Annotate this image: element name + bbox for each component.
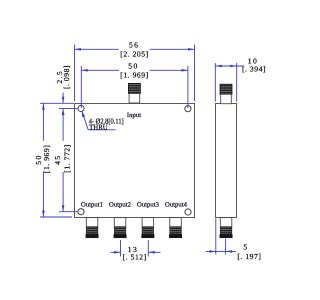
svg-text:[1. 772]: [1. 772]	[62, 144, 71, 172]
dimension 2.5 [.098] vertical	[40, 93, 78, 116]
hole bottom-left	[78, 209, 84, 215]
dimension 50 [1.969] horizontal	[81, 66, 188, 108]
output connector 1	[86, 218, 99, 238]
svg-text:Output2: Output2	[109, 202, 131, 209]
svg-text:45: 45	[53, 154, 62, 164]
dimension 13 [.512]	[111, 240, 161, 257]
svg-text:50: 50	[128, 61, 138, 70]
side view top connector	[220, 84, 232, 104]
dimension 10 [.394]	[215, 63, 243, 102]
svg-text:[. 394]: [. 394]	[242, 65, 266, 74]
dimension 50 [1.969] vertical	[40, 103, 72, 217]
hole top-left	[78, 105, 84, 111]
dimension 45 [1.772] vertical	[59, 109, 78, 212]
svg-text:56: 56	[129, 41, 139, 50]
hole top-right	[185, 106, 191, 112]
dimension 56 [2.205]	[75, 45, 195, 102]
leader note 4-2.8 THRU	[82, 111, 116, 130]
svg-text:THRU: THRU	[89, 123, 108, 132]
svg-text:Output4: Output4	[165, 202, 188, 209]
svg-text:[. 098]: [. 098]	[62, 65, 71, 89]
dimension 5 [.197]	[206, 219, 237, 255]
input connector J1	[128, 83, 140, 103]
front view body	[75, 104, 195, 218]
output connector 3	[142, 218, 155, 238]
svg-text:[1. 969]: [1. 969]	[120, 71, 148, 80]
svg-text:[. 197]: [. 197]	[237, 252, 261, 261]
svg-text:5: 5	[243, 242, 248, 251]
side view bottom connector	[220, 218, 233, 238]
svg-text:Input: Input	[127, 112, 141, 119]
output connector 2	[114, 218, 127, 238]
output connector 4	[169, 218, 182, 238]
svg-text:[1. 969]: [1. 969]	[42, 145, 51, 173]
svg-text:[2. 205]: [2. 205]	[120, 49, 148, 58]
svg-text:Output3: Output3	[137, 202, 160, 209]
svg-text:Output1: Output1	[81, 202, 103, 209]
hole bottom-right	[185, 209, 191, 215]
svg-text:[. 512]: [. 512]	[123, 253, 147, 262]
side view body	[216, 104, 237, 218]
